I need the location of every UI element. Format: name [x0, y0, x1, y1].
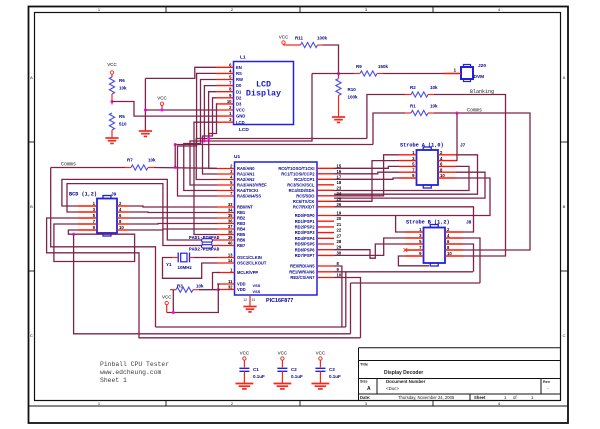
svg-text:Sheet 1: Sheet 1 — [100, 377, 127, 384]
svg-text:21: 21 — [337, 222, 342, 227]
svg-text:32: 32 — [228, 285, 233, 290]
wire R6/R5 junction to LCD GND row — [112, 102, 216, 117]
svg-text:RB0/INT: RB0/INT — [237, 205, 253, 210]
svg-text:20: 20 — [337, 216, 342, 221]
wire crystal right to OSC1 — [190, 257, 195, 259]
svg-text:Title: Title — [360, 362, 369, 367]
svg-text:28: 28 — [337, 239, 342, 244]
svg-text:30: 30 — [337, 250, 342, 255]
LCD pin 1 (GND) — [216, 115, 234, 117]
wire J9 pin7 to pin9 snake — [54, 224, 135, 262]
svg-text:VCC: VCC — [157, 96, 167, 101]
svg-text:VSS: VSS — [253, 283, 261, 288]
wire RE0 riser to trunk Ta — [334, 266, 342, 327]
svg-text:Display: Display — [246, 89, 281, 99]
wire RS jog to R1 — [175, 144, 373, 146]
svg-text:J8: J8 — [466, 220, 472, 226]
svg-text:36: 36 — [228, 219, 233, 224]
wire MCLR loop — [213, 273, 221, 290]
svg-text:VSS: VSS — [253, 289, 261, 294]
wire Blanking to J8 pin 10 — [434, 95, 506, 257]
resistor R3 10k — [170, 289, 176, 291]
svg-text:Display Decoder: Display Decoder — [384, 370, 423, 376]
wire R11 to junction — [323, 45, 339, 76]
svg-text:29: 29 — [337, 245, 342, 250]
U1 pin 34 RB1 — [217, 212, 235, 214]
svg-text:23: 23 — [337, 185, 342, 190]
svg-text:15: 15 — [337, 163, 342, 168]
svg-text:VCC: VCC — [279, 35, 289, 40]
svg-text:RA5/AN4/SS: RA5/AN4/SS — [237, 194, 261, 199]
svg-text:RD3/PSP3: RD3/PSP3 — [295, 230, 316, 235]
svg-text:J20: J20 — [478, 63, 486, 69]
ground below U1 — [249, 305, 251, 308]
svg-text:R6: R6 — [119, 78, 125, 83]
svg-text:A: A — [563, 75, 566, 80]
crystal Y1 10MHz — [181, 253, 187, 262]
svg-text:10: 10 — [337, 273, 342, 278]
U1 pin 2 RA0/AN0 — [217, 168, 235, 170]
ground below R5 — [111, 137, 113, 140]
svg-text:16: 16 — [337, 169, 342, 174]
svg-text:RB7: RB7 — [237, 243, 246, 248]
wire LCD RS to U1 RA5 — [178, 73, 218, 196]
wire RC1 to J7 pin7 — [334, 172, 399, 174]
svg-text:RB2: RB2 — [237, 216, 246, 221]
LCD pin 6 (EN) — [216, 66, 234, 68]
LCD pin 10 (D3) — [216, 103, 234, 105]
junction snake branch — [72, 233, 75, 236]
wire RD7 to J8 pin3 — [334, 238, 406, 255]
svg-text:www.edcheung.com: www.edcheung.com — [100, 369, 162, 376]
svg-text:C: C — [563, 333, 566, 338]
jumper pad links — [201, 242, 203, 245]
svg-text:LCD: LCD — [239, 127, 249, 133]
connector J7 Strobe A — [417, 150, 439, 185]
wire J9 pin1 arc to PINPAD/RB6 row — [62, 179, 202, 240]
svg-text:RC5/SDO: RC5/SDO — [296, 193, 315, 198]
svg-text:VCC: VCC — [278, 351, 288, 356]
svg-text:PIC16F877: PIC16F877 — [266, 298, 293, 304]
svg-text:RE1/WR/AN6: RE1/WR/AN6 — [289, 269, 315, 274]
svg-text:RC0/T1OSO/T1CKI: RC0/T1OSO/T1CKI — [278, 166, 314, 171]
wire RC2 to J7 pin9 — [334, 178, 399, 179]
svg-text:100k: 100k — [317, 36, 328, 41]
ground below C1 — [243, 382, 245, 385]
svg-text:18: 18 — [337, 180, 342, 185]
svg-text:J7: J7 — [460, 143, 466, 149]
ground below C2 — [281, 382, 283, 385]
svg-text:RC6/TX/CK: RC6/TX/CK — [293, 199, 315, 204]
svg-text:OSC2/CLKOUT: OSC2/CLKOUT — [237, 261, 267, 266]
svg-text:12: 12 — [243, 298, 247, 302]
svg-text:R10: R10 — [348, 87, 357, 92]
LCD module L1 — [234, 62, 294, 125]
junction Comms branch — [174, 166, 177, 169]
wire LCD RW to U1 RA4 — [184, 80, 217, 191]
wire LCD D0 to U1 RA3 — [190, 86, 217, 185]
wire J9 pin3 arc to PINPAD/RB7 row — [67, 184, 202, 246]
svg-text:RA3/AN3/VREF: RA3/AN3/VREF — [237, 183, 267, 188]
wire J8 pin4 loop down — [463, 238, 480, 283]
svg-text:34: 34 — [228, 208, 233, 213]
U1 pin 37 RB4 — [217, 228, 235, 230]
U1 pin 6 RA4/T0CKI — [217, 190, 235, 192]
U1 pin 10 RE2/CS/AN7 — [317, 277, 334, 279]
U1 pin 9 RE1/WR/AN6 — [317, 271, 334, 273]
wire R2 left vertical — [367, 95, 405, 139]
U1 pin 11 VDD — [217, 283, 235, 285]
wire RD6 to J8 pin5 — [334, 244, 406, 258]
junction Comms drop to J7 pin4 — [456, 112, 459, 115]
svg-text:27: 27 — [337, 233, 342, 238]
svg-text:RC4/SDI/SDA: RC4/SDI/SDA — [289, 188, 315, 193]
no-connect X on J8 pin7 — [404, 248, 408, 252]
U1 pin 28 RD5/PSP5 — [317, 243, 334, 245]
ground on x145 — [144, 130, 146, 133]
capacitor C2 0.1uF — [277, 367, 287, 369]
wire J9 pin 4 to U1 RB1 — [129, 211, 217, 214]
U1 pin 4 RA2/AN2 — [217, 179, 235, 181]
svg-text:10k: 10k — [148, 158, 156, 163]
svg-text:RC7/RX/DT: RC7/RX/DT — [293, 204, 315, 209]
svg-text:RD4/PSP4: RD4/PSP4 — [295, 236, 316, 241]
U1 pin 7 RA5/AN4/SS — [217, 195, 235, 197]
U1 pin 1 MCLR/VPP — [217, 272, 235, 274]
wire R9 to J20 — [383, 73, 443, 75]
wire J8 pin6 loop down — [463, 244, 474, 272]
svg-text:10: 10 — [440, 173, 445, 178]
LCD pin 2 (VCC) — [216, 109, 234, 111]
U1 pin 40 RB7 — [217, 245, 235, 247]
U1 pin 15 RC0/T1OSO/T1CKI — [317, 167, 334, 169]
U1 pin 16 RC1/T1OSI/CCP2 — [317, 173, 334, 175]
svg-text:40: 40 — [228, 241, 233, 246]
svg-text:Strobe A (1,0): Strobe A (1,0) — [400, 143, 444, 149]
svg-text:RW: RW — [236, 77, 243, 82]
wire Comms to J8 pin 8 — [434, 113, 530, 250]
wire LCD D1 to U1 RA2 — [196, 92, 217, 180]
svg-text:10k: 10k — [430, 85, 438, 90]
svg-text:R7: R7 — [127, 158, 133, 163]
svg-text:VDD: VDD — [237, 282, 246, 287]
resistor R2 10k — [405, 94, 411, 96]
wire LCD pin3 to U1 RB5 — [194, 122, 217, 234]
svg-text:14: 14 — [228, 258, 233, 263]
svg-text:C3: C3 — [329, 367, 335, 372]
svg-text:Date:: Date: — [360, 395, 370, 400]
U1 pin 23 RC4/SDI/SDA — [317, 189, 334, 191]
wire LCD D3 to U1 RA0 — [209, 104, 217, 169]
wire RC5 to J7 pin1 — [334, 155, 399, 196]
connector J8 Strobe B — [424, 228, 446, 264]
wire J7 pin10 loop to U1 RD0 — [334, 178, 490, 216]
LCD pin 7 (D0) — [216, 85, 234, 87]
svg-text:19: 19 — [337, 211, 342, 216]
U1 pin 36 RB3 — [217, 223, 235, 225]
sheet border inner — [35, 13, 561, 401]
svg-text:MCLR/VPP: MCLR/VPP — [237, 270, 258, 275]
svg-text:100k: 100k — [348, 95, 359, 100]
svg-text:RA1/AN1: RA1/AN1 — [237, 172, 255, 177]
svg-text:10k: 10k — [119, 86, 127, 91]
U1 pin 27 RD4/PSP4 — [317, 237, 334, 239]
U1 pin 21 RD2/PSP2 — [317, 226, 334, 228]
U1 pin 25 RC6/TX/CK — [317, 200, 334, 202]
wire RC6 to J7 pin3 — [334, 161, 399, 202]
U1 pin 32 VDD — [217, 289, 235, 291]
svg-text:RA2/AN2: RA2/AN2 — [237, 177, 255, 182]
wire Comms left drop to trunk Ta — [51, 168, 156, 328]
LCD pin 8 (D1) — [216, 91, 234, 93]
svg-text:RC2/CCP1: RC2/CCP1 — [294, 177, 315, 182]
resistor R1 10k — [405, 112, 411, 114]
wire J20 net down from x312 — [204, 74, 312, 142]
svg-text:Rev: Rev — [543, 380, 551, 384]
wire riser RE1 line to trunk Ta — [345, 272, 347, 327]
svg-text:R5: R5 — [119, 114, 125, 119]
svg-text:26: 26 — [337, 202, 342, 207]
svg-text:D2: D2 — [236, 95, 242, 100]
svg-text:38: 38 — [228, 230, 233, 235]
svg-text:OSC1/CLKIN: OSC1/CLKIN — [237, 255, 262, 260]
zone ticks — [165, 7, 167, 13]
wire VDD junction down to VCC loop — [167, 290, 219, 313]
LCD pin 5 (RW) — [216, 79, 234, 81]
wire RD0 branch to J8 pin1 — [396, 216, 406, 233]
wire branch to trunk Tc — [74, 234, 351, 334]
wire J9 pin5 loop to trunk Td — [47, 218, 361, 338]
wire Comms left horizontal — [51, 167, 125, 169]
U1 pin 33 RB0/INT — [217, 206, 235, 208]
svg-text:10: 10 — [227, 99, 232, 104]
wire J7 pin6 loop to U1 RC4 — [334, 166, 469, 190]
svg-text:33: 33 — [228, 202, 233, 207]
junction R6/R5 — [111, 100, 114, 103]
svg-text:RD6/PSP6: RD6/PSP6 — [295, 247, 316, 252]
svg-text:RB5: RB5 — [237, 232, 246, 237]
LCD pin 4 (RS) — [216, 72, 234, 74]
svg-text:17: 17 — [337, 174, 342, 179]
svg-text:D3: D3 — [236, 102, 242, 107]
svg-text:0.1uF: 0.1uF — [253, 374, 265, 379]
U1 pin 22 RD3/PSP3 — [317, 232, 334, 234]
microcontroller U1 PIC16F877 — [235, 162, 318, 295]
connector J9 BCD — [97, 199, 117, 234]
svg-text:31: 31 — [252, 298, 256, 302]
resistor R7 10k — [125, 167, 131, 169]
svg-text:RE0/RD/AN5: RE0/RD/AN5 — [290, 264, 315, 269]
svg-text:RD2/PSP2: RD2/PSP2 — [295, 225, 316, 230]
svg-text:11: 11 — [228, 279, 233, 284]
svg-text:C2: C2 — [291, 367, 297, 372]
svg-text:C1: C1 — [253, 367, 259, 372]
wire crystal left loop to OSC2 — [172, 257, 178, 259]
svg-text:0.1uF: 0.1uF — [329, 374, 341, 379]
U1 pin 20 RD1/PSP1 — [317, 220, 334, 222]
wire J9 pin 2 to U1 RB0 — [129, 206, 217, 207]
svg-text:RD7/PSP7: RD7/PSP7 — [295, 253, 316, 258]
sheet border bottom band line — [29, 405, 569, 407]
svg-text:RA0/AN0: RA0/AN0 — [237, 166, 255, 171]
wire vertical x145 with ground — [144, 78, 146, 131]
svg-text:RC3/SCK/SCL: RC3/SCK/SCL — [287, 182, 315, 187]
wire J8 pin2 loop to U1 RC7 — [334, 207, 474, 232]
wire VDD pins tie — [217, 284, 219, 290]
svg-text:Document Number: Document Number — [386, 379, 426, 384]
resistor R9 150k — [354, 73, 360, 75]
U1 pin 18 RC3/SCK/SCL — [317, 184, 334, 186]
wire J7 pin4 from Comms drop — [456, 160, 458, 162]
svg-text:VCC: VCC — [236, 108, 245, 113]
svg-text:RS: RS — [236, 71, 242, 76]
svg-text:U1: U1 — [234, 154, 240, 160]
svg-text:R11: R11 — [295, 36, 304, 41]
U1 pin 17 RC2/CCP1 — [317, 178, 334, 180]
svg-text:37: 37 — [228, 224, 233, 229]
wire RE2 to trunk Td — [334, 278, 361, 338]
svg-text:39: 39 — [228, 235, 233, 240]
svg-text:R3: R3 — [177, 284, 183, 289]
svg-text:Pinball CPU Tester: Pinball CPU Tester — [100, 361, 169, 368]
U1 pin 24 RC5/SDO — [317, 195, 334, 197]
svg-text:RE2/CS/AN7: RE2/CS/AN7 — [290, 275, 315, 280]
wire DVM net horizontal — [312, 73, 354, 75]
svg-text:L1: L1 — [240, 55, 246, 61]
svg-text:R1: R1 — [410, 104, 416, 109]
LCD pin 3 (LCD) — [216, 121, 234, 123]
wire PAD1 to RB6 — [213, 239, 217, 241]
svg-text:D0: D0 — [236, 83, 242, 88]
U1 pin 26 RC7/RX/DT — [317, 206, 334, 208]
resistor R11 100k — [284, 44, 301, 46]
svg-text:<Doc>: <Doc> — [386, 386, 399, 391]
wire LCD EN loop to x145 — [145, 67, 216, 78]
svg-text:Comms: Comms — [61, 162, 76, 168]
svg-text:VDD: VDD — [237, 287, 246, 292]
svg-text:B: B — [30, 204, 33, 209]
U1 pin 8 RE0/RD/AN5 — [317, 265, 334, 267]
svg-text:24: 24 — [337, 191, 342, 196]
wire x145 to LCD VCC row — [145, 109, 216, 111]
svg-text:GND: GND — [236, 114, 245, 119]
wire J8 pin9 drop to under-loop — [398, 256, 429, 266]
svg-text:25: 25 — [337, 196, 342, 201]
wire 283 loop — [351, 282, 481, 284]
resistor R6 10k — [109, 77, 114, 94]
resistor R5 510 — [109, 113, 114, 130]
ground below R10 — [338, 116, 340, 119]
resistor R10 100k vertical — [338, 76, 340, 79]
U1 VSS pins 12 31 to ground — [249, 295, 251, 306]
svg-text:10MHz: 10MHz — [178, 265, 193, 270]
LCD pin 9 (D2) — [216, 97, 234, 99]
svg-text:35: 35 — [228, 213, 233, 218]
svg-text:Thursday, November 24, 2005: Thursday, November 24, 2005 — [398, 395, 455, 400]
U1 pin 14 OSC2/CLKOUT — [217, 262, 235, 264]
svg-text:10k: 10k — [430, 104, 438, 109]
U1 pin 30 RD7/PSP7 — [317, 254, 334, 256]
svg-text:R2: R2 — [410, 85, 416, 90]
wire J9 pin 6 to U1 RB2 — [129, 217, 217, 219]
wire J9 pin 10 to U1 RB4 — [129, 229, 217, 230]
svg-text:10k: 10k — [196, 284, 204, 289]
U1 pin 5 RA3/AN3/VREF — [217, 184, 235, 186]
U1 pin 19 RD0/PSP0 — [317, 215, 334, 217]
wire J9 pin 8 to U1 RB3 — [129, 223, 217, 226]
svg-text:RD1/PSP1: RD1/PSP1 — [295, 219, 316, 224]
svg-text:VCC: VCC — [107, 62, 117, 67]
svg-text:22: 22 — [337, 228, 342, 233]
svg-text:Sheet: Sheet — [474, 395, 486, 400]
wire PAD2 to RB7 — [213, 245, 217, 247]
svg-text:A: A — [367, 386, 371, 392]
wire Comms branch up to RS net — [174, 145, 176, 168]
svg-text:510: 510 — [119, 122, 127, 127]
svg-text:RD0/PSP0: RD0/PSP0 — [295, 213, 316, 218]
svg-text:J9: J9 — [111, 192, 117, 198]
wire D1 net to R2 — [209, 138, 367, 140]
U1 pin 35 RB2 — [217, 217, 235, 219]
title block — [358, 348, 360, 401]
svg-text:Strobe B (1,2): Strobe B (1,2) — [406, 220, 450, 226]
trunk Ta — [156, 326, 346, 328]
svg-text:RD5/PSP5: RD5/PSP5 — [295, 242, 316, 247]
svg-text:10: 10 — [119, 225, 124, 230]
wire R1 left vertical — [373, 113, 405, 145]
svg-text:RA4/T0CKI: RA4/T0CKI — [237, 188, 258, 193]
svg-text:D1: D1 — [236, 89, 242, 94]
svg-text:13: 13 — [228, 253, 233, 258]
svg-text:VCC: VCC — [316, 351, 326, 356]
wire RC0 to J7 pin5 — [334, 166, 399, 168]
svg-text:DVM: DVM — [474, 74, 485, 80]
svg-text:R9: R9 — [356, 64, 362, 69]
svg-text:C: C — [30, 333, 33, 338]
svg-text:A: A — [30, 75, 33, 80]
svg-text:10: 10 — [447, 251, 452, 256]
svg-text:0.1uF: 0.1uF — [291, 374, 303, 379]
wire R7 to U1 RA0 — [154, 167, 217, 170]
wire RE1 long to J8 loop — [334, 271, 473, 273]
connector J20 DVM — [461, 67, 473, 79]
wire J7 pin8 loop to U1 — [334, 172, 485, 198]
wire LCD D2 to U1 RA1 — [203, 98, 218, 174]
svg-text:VCC: VCC — [162, 295, 172, 300]
svg-text:BCD (1,2): BCD (1,2) — [69, 192, 97, 198]
capacitor C3 0.1uF — [315, 367, 325, 369]
svg-text:LCD: LCD — [236, 120, 245, 125]
ground below C3 — [319, 382, 321, 385]
capacitor C1 0.1uF — [239, 367, 249, 369]
svg-text:VCC: VCC — [240, 351, 250, 356]
svg-text:RB3: RB3 — [237, 221, 246, 226]
U1 pin 29 RD6/PSP6 — [317, 249, 334, 251]
svg-text:RC1/T1OSI/CCP2: RC1/T1OSI/CCP2 — [281, 171, 315, 176]
svg-text:RB1: RB1 — [237, 210, 246, 215]
svg-text:B: B — [563, 204, 566, 209]
junction R10 top — [337, 72, 340, 75]
svg-text:RB6: RB6 — [237, 238, 246, 243]
svg-text:Y1: Y1 — [166, 262, 172, 267]
U1 pin 38 RB5 — [217, 234, 235, 236]
svg-text:PAD2-PINPAD: PAD2-PINPAD — [189, 247, 220, 253]
U1 pin 3 RA1/AN1 — [217, 173, 235, 175]
wire J7 pin2 loop to U1 — [334, 155, 478, 194]
wire riser 283 to trunk Tc — [350, 283, 352, 334]
wire R3 right to VDD junction — [199, 289, 218, 291]
svg-text:RB4: RB4 — [237, 227, 246, 232]
